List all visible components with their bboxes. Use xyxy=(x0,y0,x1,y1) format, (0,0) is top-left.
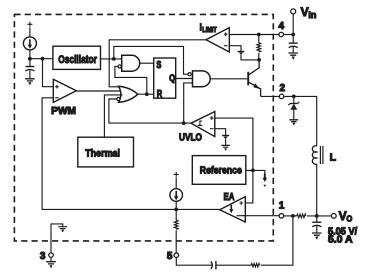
wire PWM output to OR xyxy=(76,90,121,92)
svg-text:O: O xyxy=(346,214,352,224)
junction output node xyxy=(291,214,295,218)
svg-text:S: S xyxy=(156,60,161,71)
node A junction xyxy=(28,57,32,61)
PWM comparator xyxy=(51,79,76,117)
error amplifier EA xyxy=(220,192,246,222)
capacitor C3 (output) xyxy=(312,216,321,233)
wire oscillator output to NAND xyxy=(101,58,122,60)
pin 3 xyxy=(40,251,53,262)
capacitor C2 (input) xyxy=(289,43,298,53)
ground G3 xyxy=(289,120,298,125)
reference box xyxy=(192,156,246,185)
IC dashed boundary box xyxy=(14,14,273,241)
pin 5 xyxy=(167,251,179,262)
current source I2 xyxy=(170,172,183,210)
junction collector node xyxy=(257,58,261,62)
svg-text:Thermal: Thermal xyxy=(85,148,120,160)
junction inductor node xyxy=(315,214,319,218)
junction Vin node xyxy=(291,33,295,37)
wire thermal output to OR input xyxy=(104,95,122,137)
OR gate (R input gate) xyxy=(117,86,138,102)
svg-text:3: 3 xyxy=(40,251,46,262)
svg-text:5: 5 xyxy=(167,251,173,262)
svg-text:EA: EA xyxy=(224,192,235,203)
junction resistor top xyxy=(257,33,261,37)
resistor R4 (comp) xyxy=(251,216,293,267)
resistor R2 xyxy=(174,209,178,253)
input terminal Vin xyxy=(291,5,317,20)
thermal shutdown box xyxy=(78,137,134,167)
junction reference node xyxy=(251,169,255,173)
wire pin1 to output node xyxy=(284,215,297,217)
wire Vin terminal to pin4 node and input cap xyxy=(292,14,294,43)
resistor R3 (output) xyxy=(297,214,306,218)
ground G4 xyxy=(312,233,322,239)
SR latch box xyxy=(154,58,176,100)
svg-text:R: R xyxy=(157,89,162,100)
svg-text:Q: Q xyxy=(169,72,175,83)
svg-text:4: 4 xyxy=(279,21,285,32)
junction to PWM+ xyxy=(41,57,45,61)
ground G8 below pin 3 xyxy=(46,257,56,267)
wire node A to oscillator xyxy=(30,58,53,60)
junction on osc wire xyxy=(112,57,116,61)
svg-text:1: 1 xyxy=(279,201,285,212)
pin 2 xyxy=(279,83,285,99)
capacitor C1 (timing) xyxy=(25,59,34,79)
svg-text:UVLO: UVLO xyxy=(179,132,202,143)
output terminal Vo xyxy=(331,209,352,224)
offset source (bar + triangle) xyxy=(238,52,260,60)
capacitor C4 (comp) xyxy=(211,261,251,269)
wire B: osc clock to output gate bubble xyxy=(114,46,188,74)
wire OR output to R with junction xyxy=(137,93,154,95)
wire UVLO + to reference node xyxy=(215,118,253,203)
wire UVLO - to diode reference xyxy=(215,129,226,136)
ground G2 xyxy=(288,53,298,59)
svg-text:Oscillator: Oscillator xyxy=(58,54,97,66)
wire output gate to Q1 base xyxy=(210,78,247,80)
NAND gate (S input gate) xyxy=(118,55,140,71)
wire pin 5 to compensation network xyxy=(176,258,212,266)
junction pin2/diode node xyxy=(292,95,296,99)
wire Q to output gate xyxy=(176,78,193,80)
wire emitter to pin 2 xyxy=(261,95,280,97)
ground G1 xyxy=(25,79,35,85)
UVLO comparator xyxy=(179,112,215,144)
wire ILIMIT + to pin 4 xyxy=(229,34,279,36)
svg-text:in: in xyxy=(308,10,316,20)
wire EA inverting input to pin 1 xyxy=(237,215,280,217)
pin 4 xyxy=(279,21,285,37)
wire reference output xyxy=(246,169,253,171)
ground G5 xyxy=(221,145,230,150)
wire NAND output to S xyxy=(140,62,154,64)
diode reference (bar + triangle) xyxy=(222,136,229,146)
output AND gate xyxy=(188,71,210,87)
junction EA line xyxy=(174,208,178,212)
svg-text:L: L xyxy=(330,151,337,163)
inductor L xyxy=(312,146,336,216)
svg-text:5.0 A: 5.0 A xyxy=(328,235,353,246)
wire UVLO to output gate low input xyxy=(184,83,193,123)
ILIMIT comparator xyxy=(199,21,229,52)
internal supply arrow xyxy=(253,170,267,187)
wire ILIMIT - to offset xyxy=(229,46,241,52)
wire PWM + input from node A2 xyxy=(43,59,54,87)
svg-text:2: 2 xyxy=(280,83,286,94)
current source I1 (oscillator charge source) xyxy=(23,22,36,59)
svg-text:PWM: PWM xyxy=(51,106,76,117)
pin 1 xyxy=(279,201,285,218)
catch diode D1 xyxy=(288,96,299,119)
ground jog near pin 3 xyxy=(51,224,67,253)
junction UVLO node xyxy=(182,121,186,125)
svg-text:Reference: Reference xyxy=(200,165,242,177)
wire pin 2 to diode and inductor xyxy=(284,96,317,146)
wire A: ILIMIT output down to OR gate input xyxy=(109,40,206,87)
oscillator box xyxy=(53,46,101,69)
transistor Q1 xyxy=(248,60,260,97)
svg-text:LIMIT: LIMIT xyxy=(202,27,217,34)
wire pin4 to Vin node xyxy=(284,34,294,36)
wire OR bubble input from UVLO node xyxy=(109,99,191,123)
wire PWM - input / EA output line xyxy=(42,98,220,210)
resistor R1 (sense) xyxy=(257,35,261,60)
wire NAND bubble feedback from R node xyxy=(115,66,147,94)
